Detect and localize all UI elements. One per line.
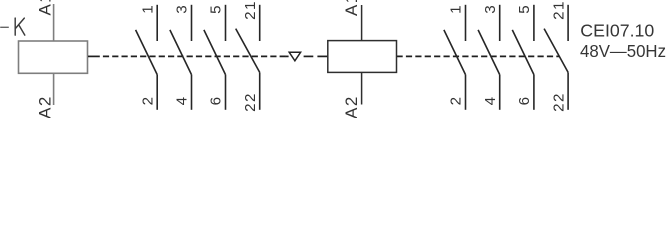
mechanical linkage dashed line (right section) [397, 55, 560, 57]
NO contact 1-2 blade [136, 30, 158, 75]
svg-text:CEI07.10: CEI07.10 [580, 21, 654, 41]
NO contact 5-6 blade (group 2) [512, 30, 534, 75]
svg-text:22: 22 [242, 92, 259, 112]
svg-text:A2: A2 [35, 95, 54, 118]
NO contact 3-4 terminals [191, 5, 193, 41]
svg-text:3: 3 [482, 5, 499, 13]
svg-text:1: 1 [448, 5, 465, 13]
svg-text:A1: A1 [342, 0, 361, 16]
NO contact 1-2 terminals (group 2) [465, 5, 467, 41]
contactor coil K2 body [328, 5, 397, 105]
svg-text:1: 1 [139, 5, 156, 13]
wire A1 (coil K2 top) [361, 5, 363, 41]
svg-text:2: 2 [139, 97, 156, 105]
svg-text:48V—50Hz: 48V—50Hz [580, 41, 666, 61]
NO contact 5-6 blade [204, 30, 226, 75]
NO contact 3-4 terminals (group 2) [499, 5, 501, 41]
svg-text:A2: A2 [342, 95, 361, 118]
group 1 pin labels [139, 0, 259, 112]
NO contact 5-6 terminals [225, 5, 227, 41]
linkage direction triangle [289, 52, 300, 61]
NO contact 1-2 blade (group 2) [444, 30, 466, 75]
mechanical linkage dashed line (left section) [88, 55, 100, 57]
wire A2 (coil K2 bottom) [361, 72, 363, 104]
mechanical linkage dashed line (middle section) [304, 55, 314, 57]
NO contact 5-6 terminals (group 2) [533, 5, 535, 41]
NO contact 3-4 blade [170, 30, 192, 75]
svg-text:A1: A1 [35, 0, 54, 16]
NO contact 1-2 terminals [156, 5, 158, 41]
wire A2 (coil K1 bottom) [53, 73, 55, 105]
svg-text:6: 6 [516, 97, 533, 105]
svg-text:4: 4 [174, 97, 191, 105]
group 2 pin labels [448, 0, 568, 112]
NC contact 21-22 terminals [259, 5, 261, 41]
svg-text:6: 6 [208, 97, 225, 105]
svg-text:4: 4 [482, 97, 499, 105]
NC contact 21-22 terminals (group 2) [567, 5, 569, 41]
contactor coil K1 (gray mirror element) [19, 4, 88, 105]
svg-text:5: 5 [516, 5, 533, 13]
coil K1 body [19, 41, 88, 73]
designator -K [0, 26, 9, 28]
svg-text:2: 2 [448, 97, 465, 105]
wire A1 (coil K1 top) [53, 4, 55, 41]
svg-text:21: 21 [242, 0, 259, 20]
NC contact 21-22 blade (group 2) [544, 29, 568, 73]
svg-text:22: 22 [551, 92, 568, 112]
svg-text:21: 21 [551, 0, 568, 20]
svg-text:3: 3 [174, 5, 191, 13]
svg-text:5: 5 [208, 5, 225, 13]
NC contact 21-22 blade [236, 29, 260, 73]
coil K2 rect [328, 41, 397, 73]
NO contact 3-4 blade (group 2) [478, 30, 500, 75]
